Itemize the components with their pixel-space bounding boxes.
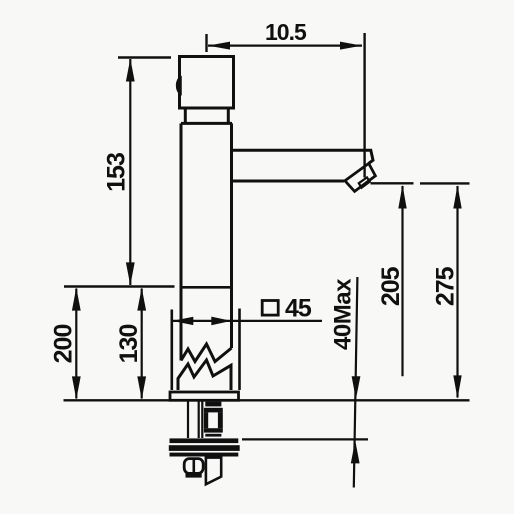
svg-text:45: 45 (285, 294, 312, 322)
arrowheads (72, 42, 462, 464)
svg-text:10.5: 10.5 (265, 19, 307, 45)
dim 153 bottom extension (64, 285, 175, 287)
aerator block (345, 163, 376, 191)
arrow 45 left (172, 317, 193, 325)
aerator inner detail (359, 177, 370, 187)
spout level extension segments (371, 182, 470, 184)
arrow 130 down (137, 376, 146, 399)
svg-text:153: 153 (103, 153, 131, 192)
body column top edge (181, 122, 232, 125)
base flange (170, 392, 239, 400)
label square symbol (262, 301, 278, 316)
arrow 10.5 right (340, 42, 362, 50)
arrow 200 down (72, 376, 81, 399)
dim 130 line (141, 289, 143, 399)
arrow 153 down (126, 262, 135, 285)
break zigzag lower (178, 360, 231, 390)
arrow 45 right (211, 317, 231, 326)
svg-text:130: 130 (115, 325, 143, 364)
dim 153 line (129, 59, 131, 285)
svg-text:275: 275 (431, 266, 459, 306)
arrow 153 up (126, 59, 135, 82)
body joint line (181, 286, 232, 289)
handle knob (180, 57, 234, 109)
base outer right line (238, 309, 241, 391)
arrow 10.5 left (208, 42, 230, 50)
arrow 40Max down (352, 376, 361, 399)
counter top line (64, 399, 470, 401)
dim 10.5 right extension line (363, 33, 365, 178)
arrow 40Max up (351, 440, 360, 463)
dim 10.5 left tick (205, 34, 207, 52)
spout bottom edge (232, 180, 345, 183)
dim 153 top extension (118, 56, 171, 58)
dim 45 line (173, 320, 323, 322)
base outer left line (171, 310, 174, 391)
supply rod (188, 401, 202, 439)
handle neck (185, 108, 228, 123)
spout top edge (232, 150, 374, 163)
arrow 200 up (72, 288, 81, 311)
dim 10.5 line (208, 44, 362, 46)
arrow 275 up (453, 185, 461, 208)
svg-text:205: 205 (377, 266, 405, 306)
mounting nut (184, 459, 203, 478)
dim 205 line (401, 186, 403, 376)
dim 200 line (75, 289, 77, 399)
arrow 275 down (453, 375, 461, 398)
body column right edge (230, 123, 233, 348)
handle lever bump (177, 77, 181, 95)
washer stack (169, 438, 240, 456)
threaded stud (204, 402, 223, 437)
dim 40Max line (354, 277, 358, 488)
svg-text:200: 200 (50, 325, 78, 364)
svg-text:40Max: 40Max (330, 278, 357, 350)
dim 275 line (456, 186, 458, 398)
body column left edge (180, 123, 183, 360)
counter bottom line (242, 438, 368, 440)
arrow 130 up (137, 288, 146, 311)
break zigzag upper (181, 344, 232, 362)
horseshoe tab (206, 458, 221, 485)
arrow 205 up (398, 185, 406, 209)
